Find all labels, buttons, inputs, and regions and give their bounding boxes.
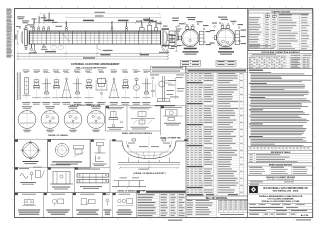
- head detail circle 1: [18, 106, 36, 132]
- dimension extension lines below shell: [18, 45, 168, 60]
- mid boxes caption bar: [122, 132, 181, 139]
- shell nozzle detail box 1: [107, 107, 124, 130]
- brief design report title: [248, 163, 313, 167]
- bottom strip detail cell 2: [46, 194, 70, 215]
- nozzle detail figure at x114: [109, 77, 120, 100]
- separator lines lower left: [15, 140, 111, 193]
- bill of materials column lines: [191, 72, 244, 196]
- nozzle detail figure at x56: [52, 77, 61, 100]
- head detail circle 2: [41, 106, 59, 132]
- end view circle left (channel side): [177, 24, 204, 51]
- left head top nozzle: [25, 25, 27, 29]
- construction data left section: [248, 13, 278, 51]
- end view right caption: [216, 51, 236, 66]
- reference table title: [248, 151, 313, 154]
- svg-text:IN A NUTSHELL GAS CORPORATION: IN A NUTSHELL GAS CORPORATION LTD: [263, 187, 308, 190]
- shell top reinforcement band lines: [30, 32, 161, 33]
- overall length dimension line: [40, 12, 160, 15]
- reference table: [248, 154, 313, 163]
- left channel head flange: [21, 30, 29, 46]
- design data three column block: [249, 166, 307, 175]
- bottom strip frame: [15, 191, 137, 218]
- border zone tick marks top: [30, 6, 302, 9]
- bill of materials header: [186, 70, 248, 73]
- svg-text:DETAIL OF HEADS: DETAIL OF HEADS: [48, 134, 68, 137]
- bill of material total row: [187, 194, 238, 195]
- bottom dimension chain line 2: [17, 51, 169, 59]
- bill of material summary section: [186, 200, 217, 218]
- anchor bolt chair detail: [50, 164, 73, 189]
- shell top nozzle stubs left cluster: [33, 26, 50, 31]
- bottom leader callout mid shell: [97, 44, 113, 51]
- svg-text:CONSTRUCTION DATA: CONSTRUCTION DATA: [271, 11, 290, 14]
- left margin vertical notes text: [6, 8, 12, 58]
- detail band title: [76, 67, 108, 70]
- svg-text:NEW MANGALORE - INDIA: NEW MANGALORE - INDIA: [273, 190, 299, 193]
- saddle plan detail: [77, 169, 109, 189]
- svg-text:LPG COLUMN CONDENSER: LPG COLUMN CONDENSER: [268, 199, 295, 201]
- construction data table frame: [248, 10, 313, 51]
- right head closure: [161, 30, 168, 45]
- sheet number text outside frame bottom center: [168, 220, 182, 221]
- shell span dimension line: [33, 20, 162, 29]
- construction data side symbols: [265, 14, 276, 18]
- bottom dimension chain line 3: [17, 58, 169, 60]
- right vertical dimension: [175, 27, 179, 52]
- end view circle interior handholes: [189, 39, 229, 44]
- section detail box 3: [163, 107, 183, 125]
- drain nozzle below left end: [29, 44, 37, 54]
- callout text right cluster: [136, 19, 168, 27]
- end view right callouts: [210, 17, 247, 44]
- detail band caption texts: [22, 102, 150, 104]
- nozzle detail figure at x89: [85, 77, 94, 100]
- box identification flags: [15, 106, 164, 195]
- secondary dimension line: [66, 15, 161, 18]
- head detail circle 3: [64, 106, 82, 132]
- left head bottom nozzle: [25, 45, 27, 50]
- saddle strap ellipses: [51, 45, 64, 49]
- end view left caption: [181, 51, 201, 66]
- shell left diagonal brace: [62, 33, 70, 42]
- border zone tick marks right: [313, 24, 316, 200]
- bottom strip detail cell 5: [103, 194, 111, 215]
- hatched skirt strip detail: [17, 72, 20, 100]
- support fitting below shell: [41, 44, 48, 50]
- detail band bottom caption: [70, 104, 101, 107]
- title block approval row: [248, 181, 313, 185]
- right end bottom fittings: [159, 45, 177, 53]
- shell vertical baffle grid lines: [33, 31, 156, 44]
- end view left callouts: [170, 17, 212, 49]
- right head side nozzle: [162, 28, 173, 46]
- svg-text:SHELL NOZZLES AND FITTINGS: SHELL NOZZLES AND FITTINGS: [76, 67, 108, 70]
- callout text stack top left: [16, 16, 62, 29]
- shell internal horizontal tube lines: [30, 35, 161, 40]
- saddle bowl caption: [133, 172, 166, 175]
- svg-text:EXTERNAL ELEVATION ARRANGEMENT: EXTERNAL ELEVATION ARRANGEMENT: [71, 63, 120, 66]
- border zone tick marks bottom: [22, 218, 310, 221]
- shell nozzle detail boxes frame: [106, 106, 186, 135]
- border zone tick marks left: [12, 24, 15, 200]
- construction data title: [271, 11, 290, 14]
- gasket detail box: [48, 140, 91, 169]
- nozzle detail figure at x66: [61, 77, 72, 100]
- nozzle detail figure at x36: [32, 77, 41, 100]
- mini table top right of band: [151, 67, 186, 74]
- title block top bar: [248, 175, 313, 181]
- nozzle detail figure at x146: [142, 77, 151, 100]
- detail rows boundary line: [15, 138, 106, 140]
- svg-text:ITEM No. E-3105 A FIXED SHELL: ITEM No. E-3105 A FIXED SHELL & TUBE: [262, 200, 300, 203]
- sheet number text outside frame bottom right: [296, 219, 311, 220]
- construction data right section: [278, 13, 313, 51]
- shell top nozzle stubs mid: [66, 27, 128, 31]
- svg-text:BILL OF MATERIAL: BILL OF MATERIAL: [206, 197, 229, 200]
- nozzle detail figure at x77: [73, 77, 82, 100]
- nozzle schedule title: [248, 51, 313, 55]
- company name text: [263, 187, 308, 193]
- flange side view left of end circle: [167, 31, 175, 46]
- saddle wear plate bowl detail: [112, 137, 188, 171]
- davit detail figure: [150, 75, 185, 107]
- vertical callout texts above mid stubs: [66, 18, 157, 28]
- title block middle row: [248, 209, 313, 212]
- flange profile detail right column: [93, 143, 107, 166]
- saddle bowl dimension line: [119, 167, 179, 170]
- flange weight mini table: [219, 200, 248, 215]
- bill of material title bar: [186, 196, 248, 200]
- nozzle schedule table: [248, 54, 313, 69]
- svg-text:OVERALL ARRANGEMENT & FABR DRG: OVERALL ARRANGEMENT & FABR DRGS FOR: [259, 195, 303, 198]
- title block field rows: [248, 204, 313, 210]
- svg-text:( DETAIL OF SADDLE SUPPORT ): ( DETAIL OF SADDLE SUPPORT ): [133, 172, 166, 175]
- drawing title text: [248, 194, 313, 203]
- impingement plate circle detail: [20, 140, 41, 164]
- vessel shell elevation outline: [30, 31, 161, 44]
- saddle elevation detail: [112, 177, 146, 188]
- elevation title text: [71, 63, 120, 66]
- bottom strip detail cell 3: [76, 194, 99, 215]
- general notes text block: [249, 72, 313, 146]
- end view circle right (shell side): [212, 24, 240, 51]
- painting specification table: [137, 191, 187, 218]
- svg-text:SHELL AND NOZZLE DETAILS: SHELL AND NOZZLE DETAILS: [122, 132, 153, 135]
- title block bottom row: [249, 212, 309, 217]
- nozzle detail figure at x136: [133, 77, 140, 100]
- bill of materials table frame: [186, 9, 248, 218]
- nozzle leader flag circles top left: [33, 13, 50, 28]
- construction data merged bottom rows: [249, 45, 274, 48]
- svg-text:A2-1 R4: A2-1 R4: [301, 214, 309, 217]
- left vertical dimension: [15, 31, 19, 44]
- shell top nozzle group right: [140, 23, 158, 31]
- nozzle detail figure at x125: [121, 77, 130, 100]
- saddle elevation caption: [118, 189, 147, 192]
- svg-text:DETAIL OF SADDLE SUPPORT: DETAIL OF SADDLE SUPPORT: [118, 189, 147, 192]
- pipe clip detail figures: [19, 167, 45, 185]
- bottom strip detail cell 1: [18, 194, 40, 215]
- nozzle detail figure at x46: [42, 77, 51, 100]
- bottom strip detail cell 4: [116, 194, 133, 215]
- detail band label texts: [23, 70, 150, 73]
- shell nozzle detail box 2: [130, 107, 156, 129]
- revision strip: [248, 146, 313, 150]
- saddle bowl base plate: [118, 157, 180, 164]
- nozzle detail figure at x26: [23, 77, 31, 100]
- head detail circle 4: [87, 106, 105, 132]
- general notes heading: [249, 70, 263, 71]
- company logo: [249, 186, 257, 193]
- bill of materials row lines and entries: [186, 73, 248, 193]
- nozzle detail figure at x101: [96, 77, 108, 100]
- bottom dimension chain line 1: [17, 52, 169, 54]
- head circles row title: [48, 134, 68, 137]
